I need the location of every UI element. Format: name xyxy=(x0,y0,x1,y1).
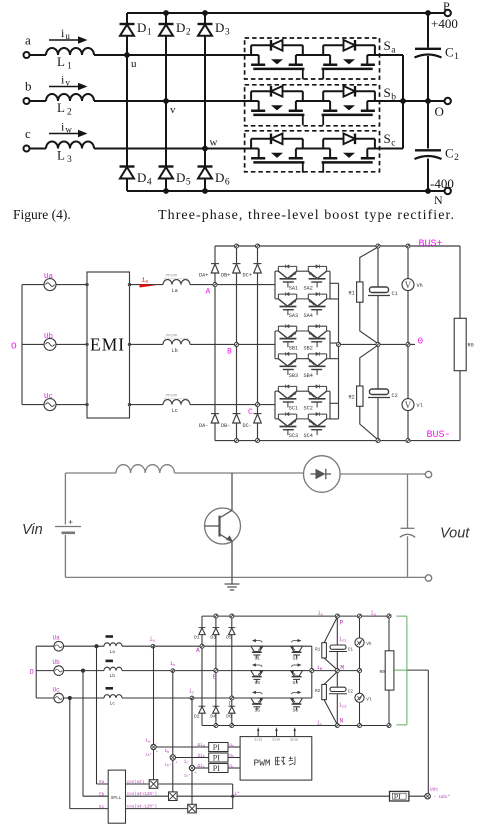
multiplier c xyxy=(188,804,197,813)
svg-text:Ua: Ua xyxy=(53,635,61,642)
transistor emitter with arrow xyxy=(220,534,233,577)
voltmeter Vh d4 xyxy=(355,638,364,647)
diode symbol xyxy=(316,469,326,479)
svg-text:R1: R1 xyxy=(349,291,355,297)
svg-text:iv: iv xyxy=(61,73,70,88)
wire top rail right xyxy=(340,473,425,475)
svg-text:A: A xyxy=(196,647,200,654)
wire bridge leg 1 xyxy=(201,616,203,725)
wire node A row xyxy=(190,284,275,286)
svg-text:ic*: ic* xyxy=(184,773,191,778)
source Ub d4 xyxy=(54,666,64,676)
current arrow i_u xyxy=(49,39,82,41)
svg-text:S5 S6: S5 S6 xyxy=(290,738,298,742)
svg-text:PFC##: PFC## xyxy=(166,333,177,337)
voltmeter Vl d4 xyxy=(355,693,364,702)
IGBT pair SA3/SA4 xyxy=(275,292,330,315)
wire EMI to inductor Lc xyxy=(130,404,164,406)
PWM gate arrow 1 xyxy=(257,730,259,737)
svg-text:cos(ωt-120°): cos(ωt-120°) xyxy=(127,805,157,810)
green sense bracket xyxy=(394,616,407,725)
output capacitor xyxy=(407,475,409,529)
diode D4 xyxy=(120,165,135,167)
wire row b d4 xyxy=(36,670,104,672)
svg-text:+: + xyxy=(156,751,159,755)
diode DC- xyxy=(254,413,262,415)
diode circle xyxy=(304,456,341,493)
junction dot amplitude i* xyxy=(231,795,234,798)
svg-text:L1: L1 xyxy=(57,54,72,72)
switch block SC left bus xyxy=(274,391,276,419)
svg-text:D6: D6 xyxy=(215,170,230,188)
junction circles bottom rail d4 xyxy=(214,723,218,727)
svg-text:SB3: SB3 xyxy=(289,373,298,379)
wire top rail P xyxy=(202,615,389,617)
svg-text:D4: D4 xyxy=(210,713,216,719)
svg-text:DB+: DB+ xyxy=(221,273,230,279)
svg-text:PFC##: PFC## xyxy=(166,394,177,398)
svg-text:ip: ip xyxy=(318,610,324,617)
diode DA- xyxy=(211,413,219,415)
svg-text:Lc: Lc xyxy=(172,408,178,414)
junction circle node C xyxy=(255,403,259,407)
wire row Ua xyxy=(22,284,87,286)
svg-text:EMI: EMI xyxy=(90,335,125,355)
wire tap c to SPLL xyxy=(70,698,108,809)
wire multiplier a to amplitude bus xyxy=(158,784,233,809)
switch block SA right bus and stubs xyxy=(330,271,339,299)
svg-text:La: La xyxy=(172,288,178,294)
dashed box switch Sa xyxy=(245,38,380,79)
wire left vertical to battery xyxy=(64,473,66,525)
diode D4 xyxy=(213,705,220,707)
wire voltmeter column xyxy=(407,246,409,441)
wire multiplier c to amplitude bus xyxy=(196,808,232,810)
svg-text:V: V xyxy=(405,400,412,410)
wire top rail left xyxy=(65,472,116,474)
diode DB+ xyxy=(233,263,241,265)
node a terminal xyxy=(24,52,30,58)
svg-text:P: P xyxy=(443,0,450,13)
terminal Vout- xyxy=(425,575,431,581)
svg-text:D3: D3 xyxy=(215,20,230,38)
junction circle node N xyxy=(335,723,339,727)
source Ua xyxy=(44,279,56,291)
svg-text:R0: R0 xyxy=(468,343,474,349)
wire bottom rail N xyxy=(202,725,389,727)
junction dots top rail xyxy=(163,10,169,16)
junction dots bottom rail xyxy=(163,188,169,194)
ground symbol xyxy=(225,577,240,590)
svg-text:SC4: SC4 xyxy=(304,433,313,439)
svg-text:O: O xyxy=(11,341,17,352)
svg-text:ib: ib xyxy=(170,661,176,668)
junction circle node B xyxy=(234,342,238,346)
svg-text:PI: PI xyxy=(213,764,220,773)
current arrow i_w xyxy=(49,133,82,135)
wire leg u xyxy=(126,13,128,191)
MOSFET pair of switch Sa xyxy=(251,40,304,79)
wire R1 branch xyxy=(360,247,378,344)
svg-text:SC2: SC2 xyxy=(304,406,313,412)
svg-text:O: O xyxy=(30,669,34,677)
svg-text:Ub: Ub xyxy=(44,333,53,341)
wire sense line a down xyxy=(153,646,155,779)
svg-text:gb: gb xyxy=(229,754,234,758)
wire load column R0 d4 xyxy=(388,616,390,725)
terminal N xyxy=(428,190,445,192)
wire diode leg B xyxy=(236,246,238,441)
capacitor C2 d4 xyxy=(330,687,346,691)
wire top rail mid xyxy=(175,472,304,474)
svg-text:-: - xyxy=(175,753,177,757)
node c terminal xyxy=(24,146,30,152)
switch block SB right bus and stubs xyxy=(330,331,339,359)
wire row c d4 xyxy=(36,697,104,699)
wire EMI to inductor Lb xyxy=(130,343,164,345)
svg-text:SB4: SB4 xyxy=(304,373,313,379)
wire voltmeter column d4 xyxy=(359,616,361,725)
svg-text:SA2: SA2 xyxy=(304,286,313,292)
svg-text:C1: C1 xyxy=(348,647,354,652)
wire bridge leg 2 xyxy=(215,616,217,725)
svg-text:B: B xyxy=(227,347,232,356)
svg-text:D3: D3 xyxy=(210,635,216,641)
junction circle mid node xyxy=(376,342,380,346)
svg-text:S6: S6 xyxy=(293,707,299,713)
junction circle bottom rail at leg C xyxy=(255,439,259,443)
junction circles top rail d4 xyxy=(214,614,218,618)
diode D5 xyxy=(159,165,174,167)
svg-text:v: v xyxy=(170,104,176,116)
svg-text:C2: C2 xyxy=(392,393,398,399)
svg-text:ib*: ib* xyxy=(165,763,172,768)
svg-text:SA1: SA1 xyxy=(289,286,298,292)
svg-text:S3 S4: S3 S4 xyxy=(272,738,280,742)
svg-text:C: C xyxy=(229,701,233,708)
svg-text:cos(ωt+120°): cos(ωt+120°) xyxy=(127,792,157,797)
IGBT pair SC3/SC4 xyxy=(275,412,330,435)
svg-text:- Udc*: - Udc* xyxy=(433,794,450,800)
svg-text:R2: R2 xyxy=(349,395,355,401)
svg-text:R2: R2 xyxy=(315,689,321,694)
IGBT pair SB1/SB2 xyxy=(275,324,330,347)
svg-text:in: in xyxy=(317,720,322,727)
resistor R2 xyxy=(357,386,363,406)
wire row Ub xyxy=(22,343,87,345)
svg-text:D4: D4 xyxy=(137,170,152,188)
inductor L boost xyxy=(116,465,174,473)
svg-text:Figure (4).: Figure (4). xyxy=(13,207,71,222)
wire PI c to PWM xyxy=(228,767,240,769)
node b terminal xyxy=(24,98,30,104)
diode DC+ xyxy=(254,263,262,265)
PI controller box a xyxy=(209,743,228,752)
IGBT S1 xyxy=(251,639,263,659)
inductor La xyxy=(163,280,190,285)
svg-text:ic: ic xyxy=(189,688,194,695)
inductor Lc d4 xyxy=(104,695,122,698)
wire summing c to PI c xyxy=(195,767,209,769)
wire neutral row to mid node xyxy=(339,343,416,345)
diode D2 xyxy=(199,705,206,707)
IGBT S3 xyxy=(251,663,263,683)
svg-text:O: O xyxy=(435,104,444,119)
svg-text:M: M xyxy=(340,665,344,672)
svg-text:Δia: Δia xyxy=(198,743,205,749)
junction dot node v xyxy=(163,98,169,104)
wire leg v xyxy=(165,13,167,191)
diode D6 xyxy=(198,165,213,167)
svg-text:Ub: Ub xyxy=(53,659,61,666)
svg-text:PWM: PWM xyxy=(254,757,271,768)
svg-text:ia*: ia* xyxy=(145,752,152,757)
svg-text:Uc: Uc xyxy=(44,393,53,401)
svg-text:c: c xyxy=(25,126,31,141)
svg-text:S4: S4 xyxy=(293,680,299,686)
svg-text:īa: īa xyxy=(145,739,150,745)
wire row c to bridge xyxy=(122,697,312,699)
PWM driver box xyxy=(240,737,312,781)
wire PI to Udc summing xyxy=(409,795,425,797)
svg-text:Sc: Sc xyxy=(384,131,396,149)
svg-text:SC1: SC1 xyxy=(289,406,298,412)
svg-text:Vin: Vin xyxy=(22,522,43,538)
svg-text:Vout: Vout xyxy=(440,526,470,542)
wire summing b to PI b xyxy=(176,757,209,759)
multiplier a xyxy=(149,780,158,789)
wire phase b input xyxy=(30,100,46,102)
svg-text:S1: S1 xyxy=(255,656,261,662)
core mark La xyxy=(106,635,114,638)
transistor collector xyxy=(220,473,233,518)
svg-text:Ec: Ec xyxy=(99,806,105,810)
svg-text:DA+: DA+ xyxy=(199,273,208,279)
svg-text:Udc: Udc xyxy=(430,787,439,793)
battery Vin xyxy=(55,526,81,528)
svg-text:C: C xyxy=(248,408,253,417)
resistor R0 d4 xyxy=(385,651,394,690)
MOSFET pair of switch Sb xyxy=(251,86,304,125)
IGBT S4 xyxy=(291,663,303,683)
wire bottom rail xyxy=(127,190,428,192)
wire left bus xyxy=(21,285,23,405)
svg-text:Vh: Vh xyxy=(366,642,372,647)
wire phase a input xyxy=(30,54,46,56)
svg-text:SB2: SB2 xyxy=(304,345,313,351)
SPLL box xyxy=(108,770,125,823)
svg-text:-: - xyxy=(194,764,196,768)
svg-text:Vh: Vh xyxy=(417,283,423,289)
svg-text:w: w xyxy=(210,137,218,149)
wire diode leg A xyxy=(214,246,216,441)
junction circle top rail at leg B xyxy=(234,244,238,248)
IGBT pair SC1/SC2 xyxy=(275,385,330,408)
svg-text:Lc: Lc xyxy=(110,701,116,707)
junction circle IGBT mid xyxy=(310,669,314,673)
svg-text:-400: -400 xyxy=(430,176,454,191)
wire IGBT output vertical xyxy=(311,646,313,698)
svg-text:Lb: Lb xyxy=(110,673,116,679)
svg-text:D2: D2 xyxy=(176,20,191,38)
wire row b to bridge xyxy=(122,670,312,672)
source Uc xyxy=(44,399,56,411)
svg-text:La: La xyxy=(110,649,116,655)
svg-text:īc: īc xyxy=(184,760,189,766)
core mark Lb xyxy=(106,660,114,663)
resistor R0 xyxy=(454,318,466,370)
svg-text:cos(ωt): cos(ωt) xyxy=(127,780,145,785)
svg-text:DC+: DC+ xyxy=(243,273,252,279)
transistor Q circle xyxy=(205,508,241,544)
IGBT pair SA1/SA2 xyxy=(275,265,330,288)
resistor R1 d4 xyxy=(322,643,327,658)
wire neutral vertical from Sa/Sc to O row xyxy=(402,55,404,149)
svg-text:S1 S2: S1 S2 xyxy=(254,738,262,742)
wire DC bus vertical xyxy=(427,13,429,191)
svg-text:PI: PI xyxy=(213,743,220,752)
junction circle bottom rail at cap column xyxy=(376,439,380,443)
diode D2 xyxy=(159,23,174,25)
svg-text:D2: D2 xyxy=(194,713,200,719)
wire multiplier b to amplitude bus xyxy=(177,795,233,797)
inductor Lb xyxy=(163,339,190,344)
PWM gate arrow 2 xyxy=(276,730,278,737)
wire R2 branch xyxy=(360,345,378,440)
wire bridge leg 3 xyxy=(231,616,233,725)
wire row u xyxy=(94,54,259,56)
svg-text:C1: C1 xyxy=(392,291,398,297)
inductor L1 xyxy=(46,48,94,55)
resistor R2 d4 xyxy=(322,684,327,699)
core mark Lc xyxy=(106,687,114,690)
svg-text:BUS-: BUS- xyxy=(427,430,451,441)
junction circle node A d4 xyxy=(200,644,204,648)
svg-text:b: b xyxy=(25,79,32,94)
svg-text:D6: D6 xyxy=(226,713,232,719)
junction circle node P xyxy=(335,614,339,618)
wire sense line b down xyxy=(172,671,174,792)
svg-text:SPLL: SPLL xyxy=(111,796,122,801)
svg-text:C2: C2 xyxy=(445,146,459,164)
inductor Lc xyxy=(163,400,190,405)
svg-text:V: V xyxy=(405,280,412,290)
wire R1 branch d4 xyxy=(324,617,337,670)
svg-text:S2: S2 xyxy=(293,656,299,662)
svg-text:P: P xyxy=(340,620,344,627)
wire cos b line xyxy=(126,795,169,797)
wire leg w xyxy=(204,13,206,191)
PI controller box c xyxy=(209,764,228,773)
summing junction c xyxy=(189,765,194,770)
svg-text:iu: iu xyxy=(61,26,70,41)
IGBT S6 xyxy=(291,691,303,711)
svg-text:B: B xyxy=(213,673,217,680)
junction circle top rail at cap column xyxy=(376,244,380,248)
wire tap a to SPLL xyxy=(97,646,109,784)
junction circle node A xyxy=(213,283,217,287)
svg-text:C2: C2 xyxy=(348,690,354,695)
EMI filter box xyxy=(87,272,130,418)
svg-text:io: io xyxy=(371,610,377,617)
wire EMI to inductor La xyxy=(130,284,164,286)
svg-text:Eb: Eb xyxy=(99,792,105,797)
svg-text:S3: S3 xyxy=(255,680,261,686)
junction circle node M xyxy=(335,669,339,673)
wire R2 branch d4 xyxy=(324,672,337,725)
svg-text:C1: C1 xyxy=(445,45,459,63)
svg-text:SB1: SB1 xyxy=(289,345,298,351)
voltmeter Vl xyxy=(402,399,414,411)
svg-text:D5: D5 xyxy=(176,170,191,188)
IGBT pair SB3/SB4 xyxy=(275,352,330,375)
transistor base bar xyxy=(218,516,220,537)
svg-text:L2: L2 xyxy=(57,100,72,118)
wire capacitor column C1/C2 xyxy=(377,246,379,441)
junction circle node C d4 xyxy=(230,696,234,700)
wire i* line to voltage PI xyxy=(233,795,390,797)
wire node C row xyxy=(190,404,275,406)
wire summing a to PI a xyxy=(156,746,209,748)
wire diode leg C xyxy=(257,246,259,441)
current arrow i_v xyxy=(49,86,82,88)
svg-text:DB-: DB- xyxy=(221,423,230,429)
svg-text:ia: ia xyxy=(142,277,149,285)
capacitor C1 xyxy=(415,48,441,50)
svg-text:PI: PI xyxy=(394,793,401,802)
summing junction b xyxy=(170,755,175,760)
svg-text:Uc: Uc xyxy=(53,686,61,693)
inductor L2 xyxy=(46,94,94,101)
multiplier b xyxy=(169,792,178,801)
switch block SA left bus xyxy=(274,271,276,299)
svg-text:L3: L3 xyxy=(57,148,72,166)
svg-text:BUS+: BUS+ xyxy=(419,239,443,250)
svg-text:iM: iM xyxy=(317,665,323,672)
hanzi glyph 1 (drive) xyxy=(276,756,296,765)
wire Sa mid and output xyxy=(296,54,403,56)
svg-text:DC-: DC- xyxy=(243,423,252,429)
svg-text:R1: R1 xyxy=(315,648,321,653)
diode DB- xyxy=(233,413,241,415)
svg-text:A: A xyxy=(206,288,211,297)
wire sense line c down xyxy=(191,698,193,804)
wire node B row xyxy=(190,343,275,345)
wire row w xyxy=(94,148,259,150)
capacitor C1 (electrolytic) xyxy=(370,287,389,293)
wire phase c input xyxy=(30,148,46,150)
svg-text:N: N xyxy=(340,717,344,724)
wire bottom rail xyxy=(65,576,425,578)
junction circle node B d4 xyxy=(214,669,218,673)
junction dot bus at O row xyxy=(425,98,431,104)
terminal Vout+ xyxy=(425,471,431,477)
svg-text:D1: D1 xyxy=(194,635,200,641)
summing junction Udc xyxy=(425,793,431,799)
wire M row xyxy=(312,670,360,672)
svg-text:DA-: DA- xyxy=(199,423,208,429)
diode D6 xyxy=(228,705,235,707)
svg-text:Three-phase, three-level boost: Three-phase, three-level boost type rect… xyxy=(158,208,454,223)
svg-text:+: + xyxy=(175,761,178,765)
svg-text:N: N xyxy=(434,193,443,207)
svg-text:SA4: SA4 xyxy=(304,313,313,319)
inductor L3 xyxy=(46,142,94,149)
junction dot tap b xyxy=(81,669,85,673)
PWM gate arrow 3 xyxy=(294,730,296,737)
svg-text:-: - xyxy=(155,743,157,747)
terminal P xyxy=(428,12,445,14)
